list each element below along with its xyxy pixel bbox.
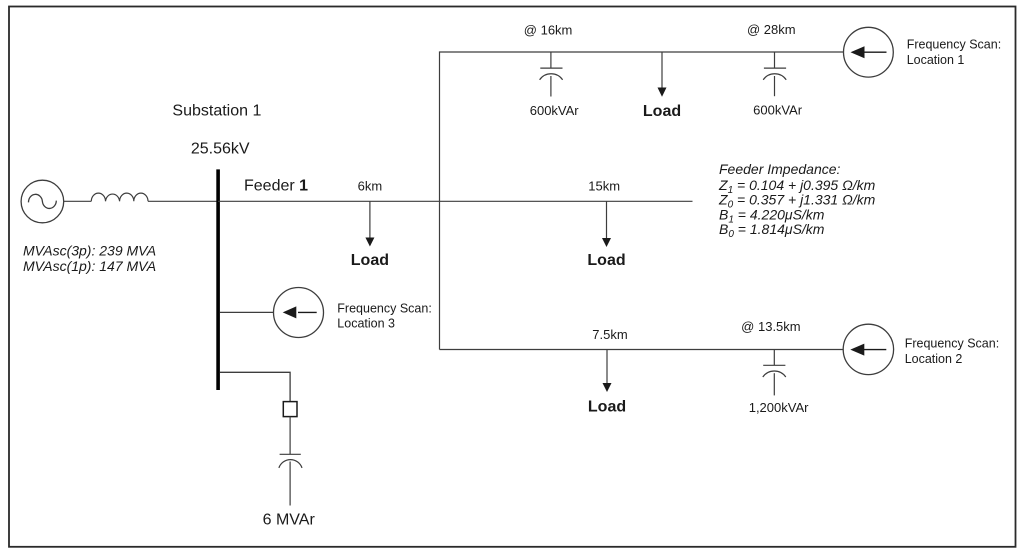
frequency scan meter U2 <box>843 324 893 374</box>
svg-text:Feeder 1: Feeder 1 <box>244 178 308 195</box>
inductor L1 <box>91 193 148 201</box>
svg-text:Load: Load <box>643 103 681 120</box>
wire source to inductor <box>64 200 92 202</box>
svg-text:600kVAr: 600kVAr <box>753 103 803 118</box>
AC source G1 <box>21 180 64 223</box>
svg-text:6km: 6km <box>358 179 383 194</box>
svg-text:Frequency Scan:: Frequency Scan: <box>907 37 1002 51</box>
capacitor C2 600kVAr <box>763 52 786 96</box>
svg-text:Load: Load <box>587 252 625 269</box>
svg-text:1,200kVAr: 1,200kVAr <box>749 400 809 415</box>
svg-text:Load: Load <box>588 398 626 415</box>
svg-text:Substation 1: Substation 1 <box>172 102 261 119</box>
svg-text:25.56kV: 25.56kV <box>191 141 250 158</box>
capacitor C1 600kVAr <box>540 52 563 97</box>
svg-text:6 MVAr: 6 MVAr <box>263 512 316 529</box>
label Feeder Impedance block <box>718 161 876 240</box>
frequency scan meter U1 <box>844 27 894 77</box>
capacitor C4 6 MVAr <box>279 417 302 506</box>
svg-text:MVAsc(3p): 239 MVA: MVAsc(3p): 239 MVA <box>23 243 156 259</box>
capacitor C3 1200kVAr <box>763 350 786 396</box>
load arrow (6km tap) <box>351 201 389 269</box>
load arrow (top branch) <box>643 52 681 120</box>
svg-text:Location 3: Location 3 <box>337 317 395 331</box>
frequency scan meter U3 <box>274 288 324 338</box>
svg-text:B0 = 1.814μS/km: B0 = 1.814μS/km <box>719 221 825 240</box>
wire junction vertical (feeder branch riser) <box>440 52 844 350</box>
wire inductor to bus <box>148 200 218 202</box>
svg-text:Load: Load <box>351 252 389 269</box>
wire bus to scan meter U3 <box>220 311 274 313</box>
load arrow (7.5km tap) <box>588 350 626 416</box>
svg-text:Location 1: Location 1 <box>907 53 965 67</box>
wire bus to capacitor bank branch <box>220 372 290 401</box>
svg-text:Frequency Scan:: Frequency Scan: <box>905 336 1000 350</box>
wire feeder main line <box>218 200 693 202</box>
svg-text:@ 28km: @ 28km <box>747 22 796 37</box>
svg-text:15km: 15km <box>588 179 620 194</box>
svg-text:@ 16km: @ 16km <box>524 22 573 37</box>
svg-text:MVAsc(1p): 147 MVA: MVAsc(1p): 147 MVA <box>23 258 156 274</box>
bus Substation 1 <box>216 169 220 390</box>
svg-text:Frequency Scan:: Frequency Scan: <box>337 302 432 316</box>
svg-text:7.5km: 7.5km <box>592 327 627 342</box>
svg-text:600kVAr: 600kVAr <box>530 103 580 118</box>
svg-text:Feeder Impedance:: Feeder Impedance: <box>719 161 841 177</box>
svg-text:Location 2: Location 2 <box>905 352 963 366</box>
wire bottom branch <box>440 349 844 351</box>
breaker/switch square <box>283 402 297 417</box>
svg-text:@ 13.5km: @ 13.5km <box>741 319 800 334</box>
load arrow (15km tap) <box>587 201 625 269</box>
